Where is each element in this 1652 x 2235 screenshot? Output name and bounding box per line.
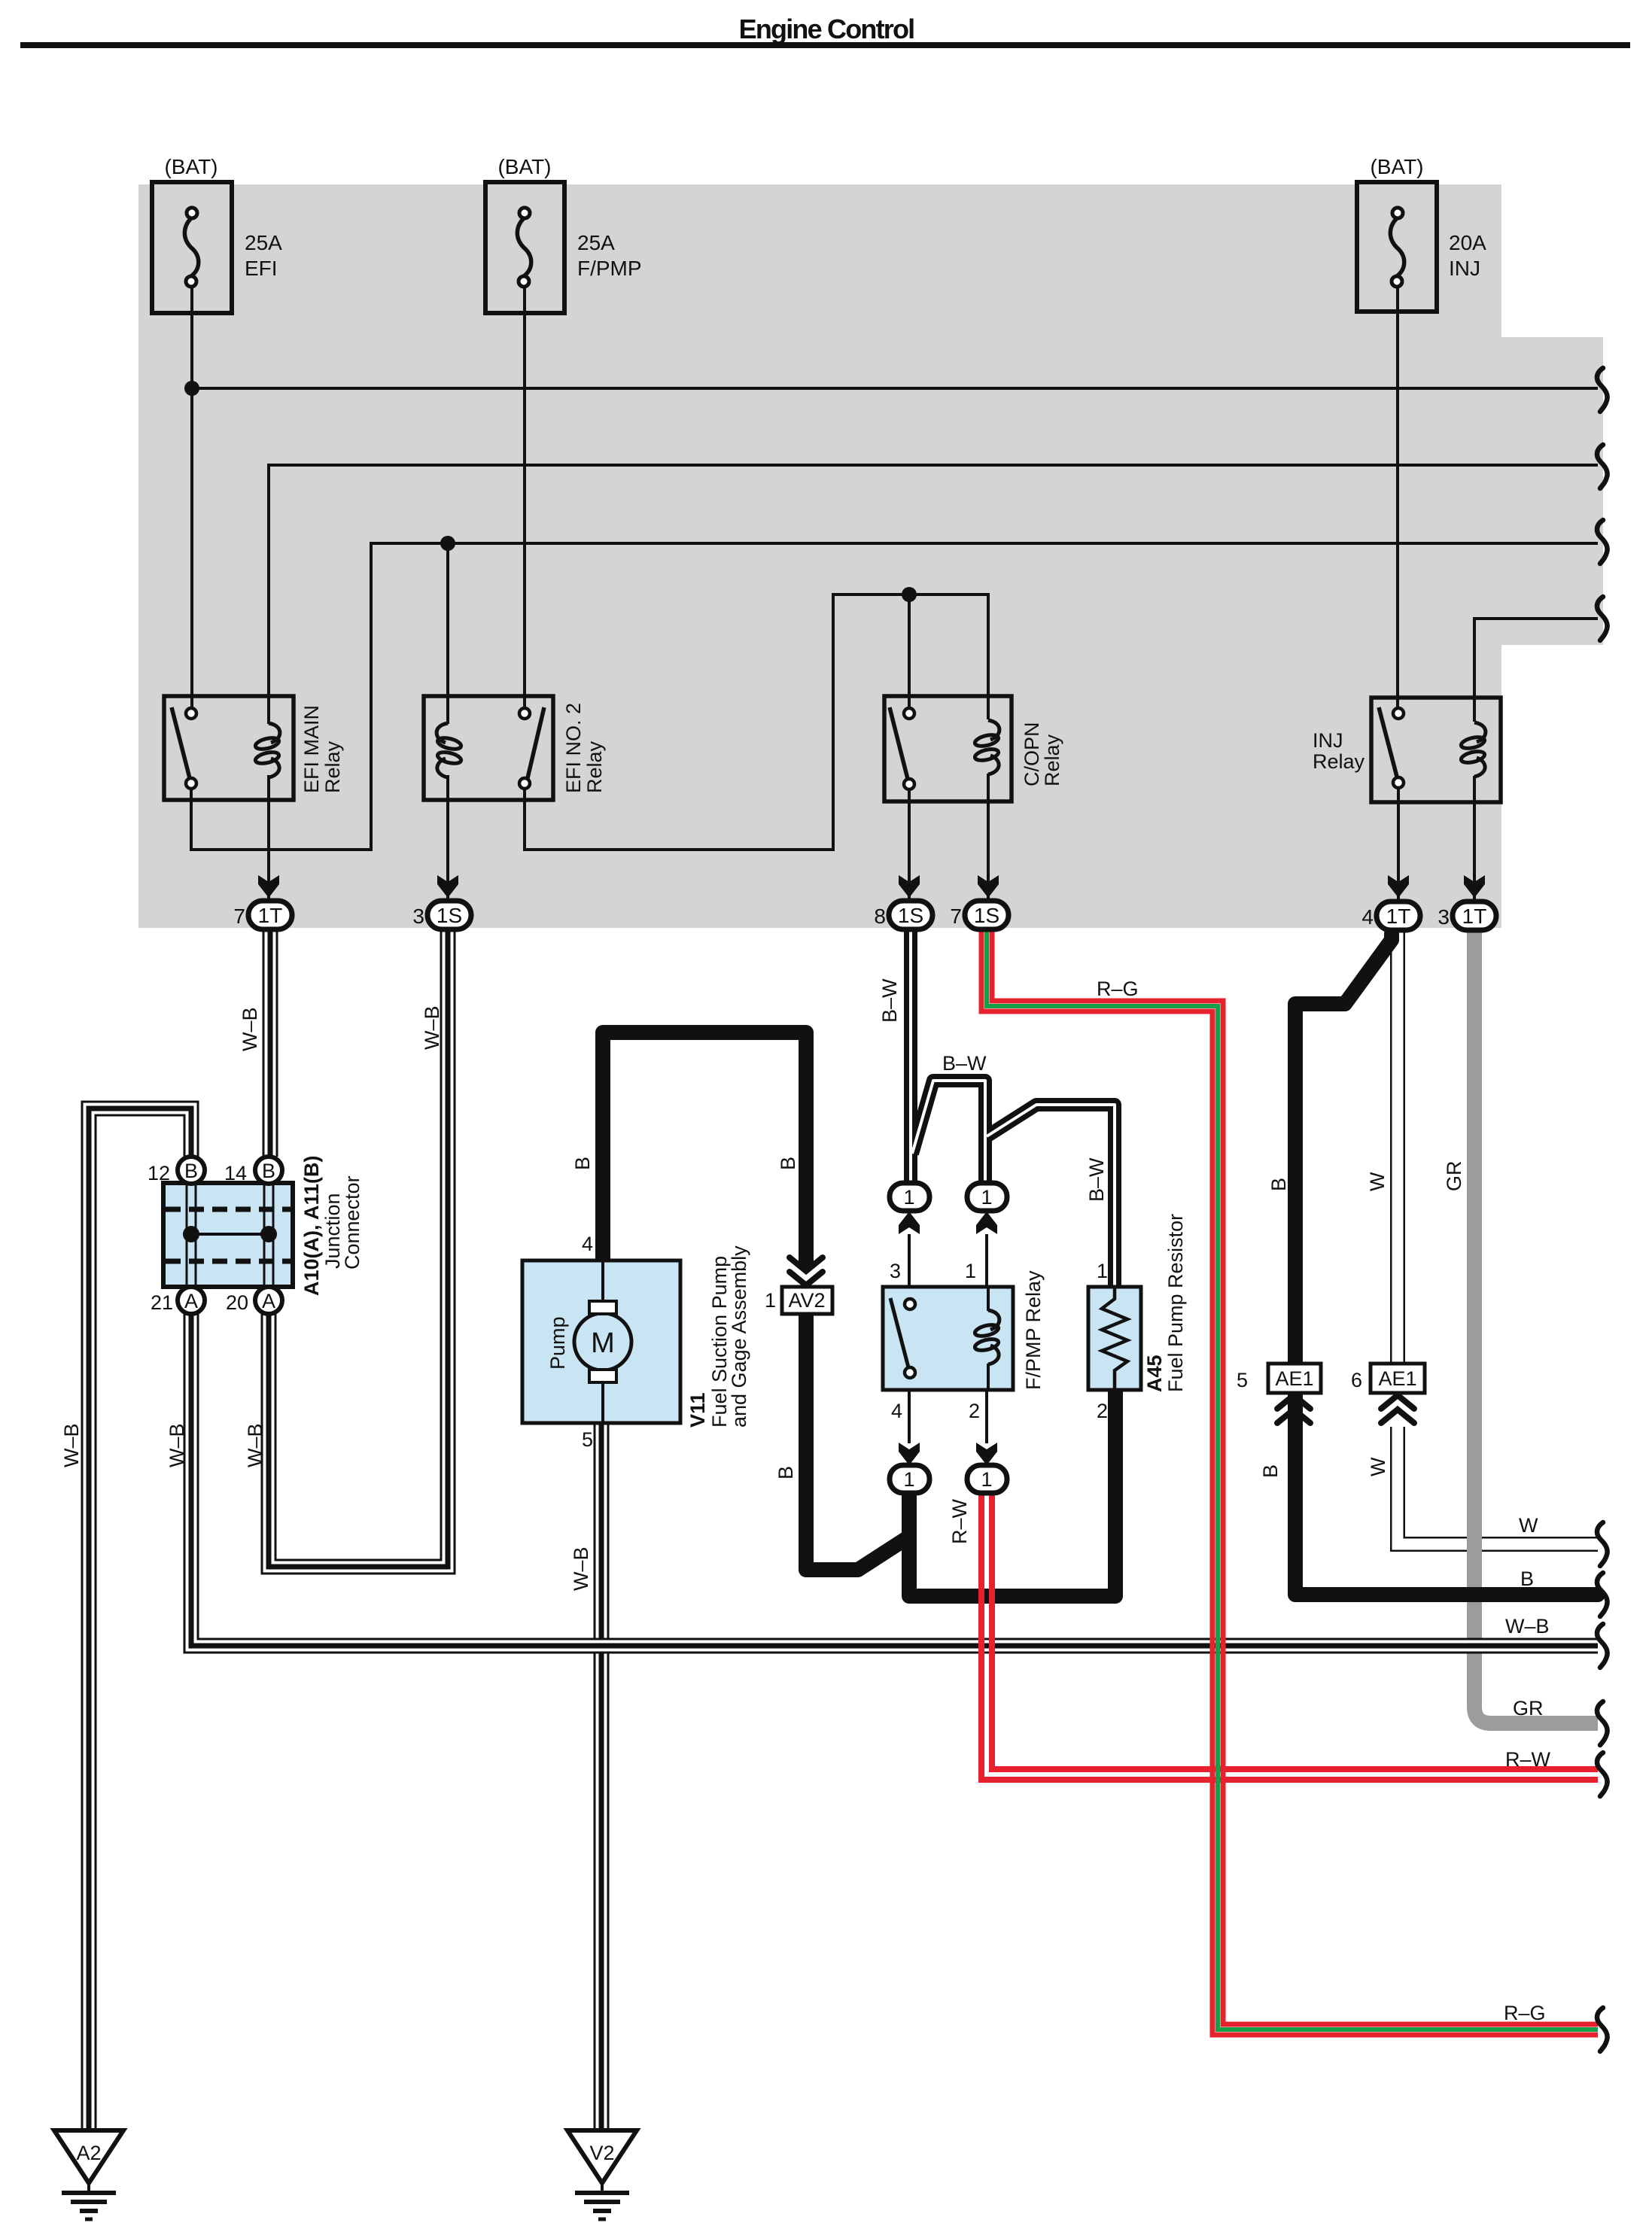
- svg-text:A: A: [262, 1290, 275, 1312]
- svg-text:(BAT): (BAT): [164, 155, 218, 178]
- svg-text:(BAT): (BAT): [1370, 155, 1423, 178]
- svg-text:B–W: B–W: [1085, 1157, 1108, 1202]
- svg-text:R–G: R–G: [1097, 978, 1139, 1000]
- svg-text:12: 12: [148, 1162, 170, 1184]
- svg-text:1: 1: [1097, 1260, 1108, 1282]
- svg-text:Relay: Relay: [1041, 734, 1063, 786]
- svg-text:Engine Control: Engine Control: [739, 14, 914, 44]
- svg-text:1: 1: [981, 1468, 992, 1491]
- svg-text:Connector: Connector: [341, 1175, 364, 1270]
- svg-text:20A: 20A: [1449, 231, 1486, 254]
- svg-text:5: 5: [1237, 1369, 1248, 1391]
- svg-text:Fuel Pump Resistor: Fuel Pump Resistor: [1164, 1214, 1187, 1392]
- svg-text:1: 1: [765, 1289, 776, 1312]
- svg-text:B: B: [571, 1157, 594, 1170]
- svg-text:AV2: AV2: [788, 1289, 825, 1312]
- svg-text:B: B: [1267, 1178, 1290, 1191]
- svg-text:20: 20: [226, 1291, 248, 1314]
- svg-text:W: W: [1519, 1514, 1538, 1537]
- svg-text:5: 5: [582, 1428, 593, 1451]
- svg-text:AE1: AE1: [1378, 1367, 1416, 1390]
- svg-text:B: B: [1520, 1568, 1534, 1590]
- svg-text:25A: 25A: [245, 231, 282, 254]
- svg-text:Relay: Relay: [1313, 750, 1365, 773]
- svg-text:1: 1: [981, 1186, 992, 1209]
- svg-text:A10(A), A11(B): A10(A), A11(B): [300, 1155, 323, 1296]
- svg-text:W–B: W–B: [244, 1423, 266, 1467]
- svg-text:Relay: Relay: [321, 740, 344, 793]
- svg-text:W–B: W–B: [166, 1423, 188, 1467]
- svg-text:F/PMP: F/PMP: [577, 257, 642, 280]
- svg-text:2: 2: [969, 1400, 980, 1422]
- svg-text:R–W: R–W: [948, 1498, 971, 1544]
- svg-text:7: 7: [950, 905, 962, 928]
- svg-text:B: B: [262, 1160, 275, 1182]
- svg-text:Pump: Pump: [546, 1316, 569, 1370]
- svg-text:B: B: [1259, 1464, 1282, 1478]
- svg-text:W: W: [1367, 1457, 1389, 1476]
- svg-text:(BAT): (BAT): [497, 155, 551, 178]
- svg-text:1S: 1S: [974, 904, 999, 927]
- svg-text:B: B: [774, 1466, 797, 1479]
- svg-text:and Gage Assembly: and Gage Assembly: [728, 1245, 750, 1428]
- svg-text:AE1: AE1: [1275, 1367, 1313, 1390]
- svg-text:1: 1: [965, 1260, 976, 1282]
- svg-text:14: 14: [224, 1162, 247, 1184]
- svg-text:2: 2: [1097, 1400, 1108, 1422]
- svg-text:1: 1: [903, 1468, 914, 1491]
- svg-text:W–B: W–B: [570, 1546, 592, 1591]
- svg-text:3: 3: [412, 905, 424, 928]
- svg-text:R–W: R–W: [1505, 1748, 1551, 1771]
- svg-text:A2: A2: [76, 2142, 101, 2164]
- svg-text:INJ: INJ: [1449, 257, 1480, 280]
- svg-text:1T: 1T: [258, 904, 283, 927]
- svg-text:6: 6: [1351, 1369, 1362, 1391]
- svg-text:B–W: B–W: [878, 978, 901, 1023]
- svg-text:F/PMP Relay: F/PMP Relay: [1022, 1270, 1045, 1390]
- svg-text:C/OPN: C/OPN: [1021, 722, 1043, 786]
- svg-text:B: B: [777, 1157, 799, 1170]
- svg-text:7: 7: [233, 905, 245, 928]
- svg-text:V11: V11: [686, 1392, 709, 1428]
- svg-text:4: 4: [891, 1400, 902, 1422]
- svg-text:1T: 1T: [1462, 905, 1487, 928]
- svg-text:A: A: [184, 1290, 198, 1312]
- svg-text:B–W: B–W: [942, 1052, 987, 1075]
- svg-text:Relay: Relay: [583, 740, 606, 793]
- svg-text:3: 3: [1438, 905, 1450, 929]
- svg-text:3: 3: [890, 1260, 901, 1282]
- svg-text:4: 4: [1361, 905, 1374, 929]
- svg-text:21: 21: [151, 1291, 173, 1314]
- svg-text:W–B: W–B: [1505, 1615, 1550, 1637]
- svg-text:B: B: [184, 1160, 198, 1182]
- svg-text:4: 4: [582, 1233, 593, 1255]
- svg-text:R–G: R–G: [1504, 2002, 1546, 2024]
- svg-text:W–B: W–B: [60, 1423, 83, 1467]
- svg-text:M: M: [591, 1327, 615, 1359]
- svg-text:EFI NO. 2: EFI NO. 2: [562, 703, 585, 793]
- svg-text:W–B: W–B: [421, 1005, 443, 1050]
- svg-text:W–B: W–B: [239, 1007, 261, 1051]
- svg-text:GR: GR: [1443, 1161, 1465, 1192]
- svg-text:1S: 1S: [898, 904, 923, 927]
- svg-text:EFI: EFI: [245, 257, 278, 280]
- svg-text:EFI MAIN: EFI MAIN: [300, 705, 323, 793]
- svg-text:A45: A45: [1143, 1355, 1166, 1392]
- svg-text:INJ: INJ: [1313, 729, 1343, 752]
- svg-text:W: W: [1366, 1172, 1389, 1191]
- svg-text:1: 1: [903, 1186, 914, 1209]
- svg-text:25A: 25A: [577, 231, 615, 254]
- svg-text:1S: 1S: [437, 904, 462, 927]
- svg-text:V2: V2: [589, 2142, 614, 2164]
- svg-text:1T: 1T: [1386, 905, 1411, 928]
- svg-text:8: 8: [874, 905, 886, 928]
- svg-text:GR: GR: [1513, 1697, 1544, 1720]
